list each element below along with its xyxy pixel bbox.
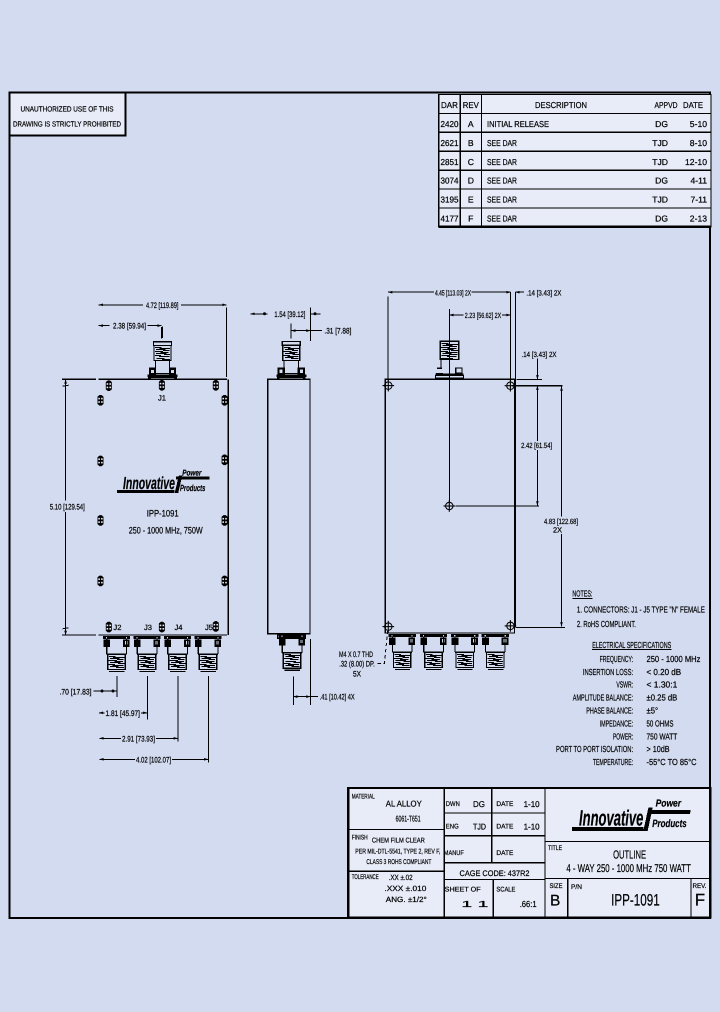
revision table: [439, 95, 711, 227]
svg-text:SIZE: SIZE: [550, 883, 563, 890]
svg-text:1. CONNECTORS: J1 - J5 TYPE ": 1. CONNECTORS: J1 - J5 TYPE "N" FEMALE: [577, 604, 705, 614]
svg-text:.32 (8.00) DP.: .32 (8.00) DP.: [339, 659, 375, 668]
svg-text:SCALE: SCALE: [496, 887, 515, 894]
svg-text:4 - WAY 250 - 1000 MHz 750 WA: 4 - WAY 250 - 1000 MHz 750 WATT: [566, 863, 691, 875]
title block logo: Innovative Power Products: [545, 840, 710, 842]
dimension .14 [3.43] 2X (hole edge offset, top): [514, 292, 516, 627]
svg-text:F: F: [468, 214, 473, 224]
svg-text:.70 [17.83]: .70 [17.83]: [60, 687, 92, 696]
svg-text:ENG: ENG: [446, 824, 459, 831]
svg-text:B: B: [550, 893, 560, 910]
side view: body outline: [268, 379, 310, 633]
dimension 1.81 [45.97] (J3 offset): [99, 711, 103, 714]
svg-text:DG: DG: [655, 119, 668, 129]
svg-text:2.38 [59.94]: 2.38 [59.94]: [113, 322, 146, 331]
svg-text:ELECTRICAL SPECIFICATIONS: ELECTRICAL SPECIFICATIONS: [592, 640, 671, 650]
title block: material cell: [443, 788, 445, 917]
front view logo: Innovative Power Products: [117, 467, 210, 493]
svg-text:C: C: [468, 157, 474, 167]
svg-text:5.10 [129.54]: 5.10 [129.54]: [50, 502, 85, 511]
dimension .70 [17.83] (J2 offset): [94, 690, 117, 692]
svg-text:DATE: DATE: [496, 824, 513, 831]
svg-text:5-10: 5-10: [690, 119, 707, 129]
svg-text:.41 [10.42] 4X: .41 [10.42] 4X: [320, 693, 355, 702]
svg-text:6061-T651: 6061-T651: [396, 814, 421, 824]
svg-text:5X: 5X: [353, 670, 362, 679]
svg-text:2.23 [56.62] 2X: 2.23 [56.62] 2X: [465, 311, 501, 320]
connector J1 (front view, top): [162, 327, 164, 339]
svg-text:.14 [3.43] 2X: .14 [3.43] 2X: [522, 350, 557, 359]
title block: size / pn / rev: [567, 878, 569, 917]
connector (side view, top): [290, 324, 292, 339]
svg-text:> 10dB: > 10dB: [647, 744, 670, 754]
svg-text:±0.25 dB: ±0.25 dB: [647, 693, 678, 703]
svg-text:SHEET OF: SHEET OF: [445, 887, 481, 894]
svg-text:IMPEDANCE:: IMPEDANCE:: [600, 718, 634, 728]
svg-text:DG: DG: [655, 214, 668, 224]
svg-text:DATE: DATE: [496, 850, 513, 857]
svg-text:TITLE: TITLE: [548, 845, 562, 852]
svg-text:2621: 2621: [441, 138, 459, 148]
svg-text:3195: 3195: [441, 195, 459, 205]
dimension 4.83 [122.68] 2X (hole spacing vertical): [561, 387, 563, 517]
svg-text:SEE DAR: SEE DAR: [487, 157, 517, 167]
svg-text:250 - 1000 MHz, 750W: 250 - 1000 MHz, 750W: [129, 525, 203, 536]
dimension .41 [10.42] 4X (bottom connector): [293, 696, 318, 698]
svg-text:250 - 1000 MHz: 250 - 1000 MHz: [647, 654, 701, 664]
svg-text:B: B: [468, 138, 474, 148]
svg-text:CLASS 3 ROHS COMPLIANT: CLASS 3 ROHS COMPLIANT: [366, 859, 431, 866]
svg-text:12-10: 12-10: [685, 157, 707, 167]
svg-text:TEMPERATURE:: TEMPERATURE:: [593, 757, 633, 767]
svg-text:SEE DAR: SEE DAR: [487, 195, 517, 205]
svg-text:VSWR:: VSWR:: [616, 680, 633, 690]
svg-text:±5°: ±5°: [647, 706, 659, 716]
svg-text:APPVD: APPVD: [655, 100, 678, 110]
svg-text:IPP-1091: IPP-1091: [611, 892, 660, 910]
svg-text:REV: REV: [463, 100, 479, 110]
svg-text:MANUF: MANUF: [444, 850, 464, 857]
rear view mounting holes: [383, 380, 395, 392]
svg-text:PORT TO PORT ISOLATION:: PORT TO PORT ISOLATION:: [556, 744, 633, 754]
svg-text:3074: 3074: [441, 176, 459, 186]
dimension 4.72 [119.89] (front top width): [99, 304, 143, 306]
svg-text:INITIAL RELEASE: INITIAL RELEASE: [487, 119, 549, 129]
svg-text:NOTES:: NOTES:: [572, 589, 592, 599]
dimension 2.38 [59.94] (J1 offset): [99, 325, 110, 327]
dimension 4.02 [102.07] (J5 offset): [99, 758, 103, 761]
dimension 4.45 [113.03] 2X (hole spacing): [388, 291, 434, 293]
svg-text:2. RoHS COMPLIANT.: 2. RoHS COMPLIANT.: [577, 619, 636, 629]
rear view bottom connectors: [388, 634, 415, 669]
rear view: body outline: [385, 379, 514, 633]
svg-text:TJD: TJD: [652, 138, 668, 148]
svg-text:J2: J2: [113, 623, 121, 632]
dimension 1.54 [39.12] (body width): [251, 313, 268, 315]
svg-text:< 0.20 dB: < 0.20 dB: [647, 667, 682, 677]
svg-text:DRAWING IS STRICTLY PROHIBITED: DRAWING IS STRICTLY PROHIBITED: [13, 120, 121, 129]
svg-text:TOLERANCE: TOLERANCE: [352, 874, 379, 881]
svg-text:.XXX ±.010: .XXX ±.010: [384, 884, 426, 893]
title block frame: [348, 788, 710, 917]
svg-text:IPP-1091: IPP-1091: [147, 507, 179, 518]
svg-text:4177: 4177: [441, 214, 459, 224]
dimension 2.23 [56.62] 2X (center hole): [449, 314, 463, 316]
svg-text:SEE DAR: SEE DAR: [487, 138, 517, 148]
svg-text:1 1: 1 1: [461, 899, 488, 909]
svg-text:.66:1: .66:1: [520, 899, 537, 909]
svg-text:DATE: DATE: [683, 100, 703, 110]
svg-text:TJD: TJD: [652, 195, 668, 205]
svg-text:A: A: [468, 119, 474, 129]
connector (rear view, top): [448, 309, 450, 502]
svg-text:D: D: [468, 176, 474, 186]
leader to tapped hole: [378, 631, 388, 664]
connector (side view, bottom): [278, 635, 305, 670]
svg-text:DG: DG: [655, 176, 668, 186]
svg-text:2851: 2851: [441, 157, 459, 167]
dimension 5.10 [129.54] (front height): [65, 379, 67, 500]
svg-text:Products: Products: [180, 483, 205, 493]
svg-text:2-13: 2-13: [690, 214, 707, 224]
svg-text:J5: J5: [205, 623, 213, 632]
svg-text:< 1.30:1: < 1.30:1: [647, 680, 678, 690]
svg-text:J1: J1: [158, 394, 166, 403]
svg-text:750 WATT: 750 WATT: [647, 731, 678, 741]
svg-text:POWER:: POWER:: [613, 731, 633, 741]
svg-text:TJD: TJD: [473, 822, 486, 832]
dimension .31 [7.88] (connector offset): [291, 330, 322, 332]
svg-text:J3: J3: [144, 623, 152, 632]
svg-text:E: E: [468, 195, 474, 205]
title block: dwn/eng/manuf rows: [544, 788, 546, 917]
svg-text:AL ALLOY: AL ALLOY: [386, 799, 422, 809]
svg-text:DESCRIPTION: DESCRIPTION: [535, 100, 587, 110]
svg-text:Innovative: Innovative: [579, 806, 643, 831]
svg-text:MATERIAL: MATERIAL: [352, 794, 375, 801]
svg-text:REV.: REV.: [693, 883, 707, 890]
unauthorized-use notice box: [10, 93, 126, 136]
svg-text:1-10: 1-10: [524, 799, 540, 809]
svg-text:CAGE CODE: 437R2: CAGE CODE: 437R2: [460, 869, 531, 878]
svg-text:4.45 [113.03] 2X: 4.45 [113.03] 2X: [435, 288, 471, 297]
svg-text:F: F: [695, 891, 705, 910]
svg-text:SEE DAR: SEE DAR: [487, 214, 517, 224]
svg-text:INSERTION LOSS:: INSERTION LOSS:: [583, 667, 633, 677]
svg-text:4.02 [102.07]: 4.02 [102.07]: [136, 756, 171, 765]
svg-text:1-10: 1-10: [524, 822, 540, 832]
svg-text:P/N: P/N: [571, 884, 582, 891]
dimension 2.42 [61.54] (center hole vertical): [536, 386, 538, 441]
svg-text:1.54 [39.12]: 1.54 [39.12]: [274, 310, 305, 319]
svg-text:J4: J4: [175, 623, 183, 632]
svg-text:2.91 [73.93]: 2.91 [73.93]: [122, 735, 155, 744]
svg-text:1.81 [45.97]: 1.81 [45.97]: [106, 709, 141, 718]
svg-text:2X: 2X: [553, 526, 562, 535]
svg-text:7-11: 7-11: [690, 195, 707, 205]
svg-text:-55°C TO 85°C: -55°C TO 85°C: [647, 757, 698, 767]
svg-text:DG: DG: [473, 799, 485, 809]
svg-text:DWN: DWN: [446, 801, 460, 808]
svg-text:FREQUENCY:: FREQUENCY:: [600, 654, 634, 664]
connectors J2-J5 (front view, bottom): [103, 636, 130, 697]
svg-text:Products: Products: [652, 818, 687, 830]
svg-text:.31 [7.88]: .31 [7.88]: [324, 327, 351, 336]
svg-text:8-10: 8-10: [690, 138, 707, 148]
svg-text:M4 X 0.7 THD: M4 X 0.7 THD: [339, 650, 373, 659]
svg-text:UNAUTHORIZED USE OF THIS: UNAUTHORIZED USE OF THIS: [21, 105, 114, 114]
svg-text:DAR: DAR: [441, 100, 458, 110]
svg-text:TJD: TJD: [652, 157, 668, 167]
sheet border frame: [10, 93, 711, 919]
svg-text:FINISH: FINISH: [352, 834, 368, 841]
svg-text:DATE: DATE: [496, 801, 513, 808]
svg-text:Power: Power: [182, 467, 202, 477]
svg-text:SEE DAR: SEE DAR: [487, 176, 517, 186]
svg-text:PHASE BALANCE:: PHASE BALANCE:: [586, 706, 633, 716]
svg-text:4-11: 4-11: [690, 176, 707, 186]
dimension .14 [3.43] 2X (hole edge offset, right side): [517, 378, 542, 380]
svg-text:50 OHMS: 50 OHMS: [647, 718, 674, 728]
svg-text:OUTLINE: OUTLINE: [613, 849, 646, 862]
svg-text:ANG. ±1/2°: ANG. ±1/2°: [386, 895, 427, 904]
svg-text:.14 [3.43] 2X: .14 [3.43] 2X: [526, 288, 561, 297]
side view bottom flange: [278, 635, 306, 638]
svg-text:PER MIL-DTL-5541, TYPE 2, REV: PER MIL-DTL-5541, TYPE 2, REV F,: [355, 849, 440, 856]
svg-text:2.42 [61.54]: 2.42 [61.54]: [521, 441, 552, 450]
svg-text:AMPLITUDE BALANCE:: AMPLITUDE BALANCE:: [573, 693, 633, 703]
svg-text:2420: 2420: [441, 119, 459, 129]
svg-text:CHEM FILM CLEAR: CHEM FILM CLEAR: [372, 838, 425, 845]
front view screws: [106, 380, 112, 391]
svg-text:4.72 [119.89]: 4.72 [119.89]: [146, 301, 179, 310]
svg-text:.XX ±.02: .XX ±.02: [389, 873, 413, 882]
front view: body outline: [62, 378, 96, 380]
svg-text:Power: Power: [656, 799, 682, 810]
dimension 2.91 [73.93] (J4 offset): [99, 737, 103, 740]
